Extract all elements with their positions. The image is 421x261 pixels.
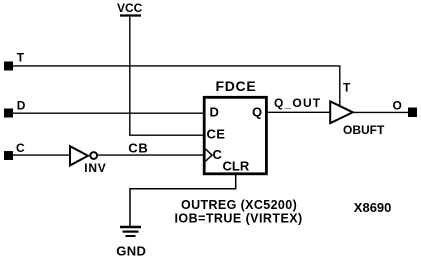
svg-text:T: T (17, 50, 25, 64)
svg-text:CB: CB (128, 141, 148, 156)
svg-text:T: T (343, 81, 351, 95)
svg-text:GND: GND (116, 244, 146, 259)
node C input pad (4, 151, 13, 160)
wire CB: INV output to FDCE C pin (97, 154, 204, 156)
wire C to INV input (13, 154, 70, 156)
svg-text:OBUFT: OBUFT (343, 123, 385, 137)
node T input pad (4, 62, 13, 71)
svg-text:FDCE: FDCE (216, 78, 257, 94)
svg-text:C: C (213, 147, 223, 162)
wire VCC to CE pin (130, 17, 204, 136)
node D input pad (4, 109, 13, 118)
svg-text:Q_OUT: Q_OUT (274, 96, 321, 110)
wire CLR to ground (130, 174, 236, 226)
svg-text:OUTREG (XC5200): OUTREG (XC5200) (181, 198, 297, 212)
node O output pad (408, 108, 417, 118)
svg-text:IOB=TRUE (VIRTEX): IOB=TRUE (VIRTEX) (175, 211, 303, 225)
inverter INV (70, 146, 106, 175)
svg-text:C: C (16, 141, 25, 155)
power symbol VCC (117, 1, 143, 16)
wire T to OBUFT enable (13, 66, 340, 106)
ground symbol GND (116, 227, 146, 259)
svg-text:CE: CE (207, 127, 226, 142)
svg-text:Q: Q (252, 105, 262, 120)
svg-text:CLR: CLR (223, 159, 250, 174)
wire OBUFT output to O pad (353, 111, 408, 113)
svg-text:O: O (393, 99, 402, 113)
pin C clock wedge (206, 149, 213, 161)
svg-text:INV: INV (84, 161, 106, 175)
flip-flop U1 FDCE box (204, 78, 266, 174)
buffer OBUFT (330, 101, 385, 137)
wire Q to OBUFT input (267, 111, 332, 113)
svg-text:D: D (17, 98, 26, 112)
wire D to FDCE D pin (13, 112, 204, 114)
svg-text:X8690: X8690 (354, 200, 392, 215)
svg-text:D: D (210, 105, 219, 120)
svg-text:VCC: VCC (117, 1, 143, 15)
